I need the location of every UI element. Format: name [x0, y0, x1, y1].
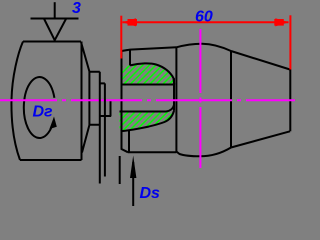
dimension extension line left — [120, 16, 122, 59]
quill steps — [100, 83, 111, 116]
rotation arrowhead — [49, 117, 56, 130]
svg-text:Ds: Ds — [140, 185, 161, 202]
wheel hub cone — [81, 42, 89, 153]
dimension arrow left — [123, 18, 137, 26]
workpiece left face — [122, 51, 129, 152]
dimension line 60 — [123, 21, 289, 23]
body hump top — [176, 44, 231, 51]
workpiece cap top edge — [122, 47, 177, 51]
rotation arrow arc Dg — [24, 77, 55, 138]
body hump bottom — [176, 148, 231, 157]
dimension extension line right — [289, 15, 291, 69]
bore wall upper — [122, 84, 175, 86]
clamp symbol wings — [31, 18, 79, 20]
bore dome curve upper — [130, 63, 174, 84]
cap/body boundary — [175, 47, 177, 151]
centerline horizontal (axis) — [0, 99, 295, 101]
short support line — [119, 156, 121, 184]
bore dome curve lower — [121, 111, 175, 131]
workpiece cap bottom edge — [128, 151, 176, 153]
quill rear vertical below axis — [110, 100, 112, 116]
hatch lower lobe — [120, 111, 175, 132]
svg-text:Dг: Dг — [33, 104, 54, 121]
feed arrow Ds shaft — [132, 162, 134, 206]
svg-text:60: 60 — [195, 9, 213, 26]
feed arrowhead — [130, 156, 136, 179]
taper right face — [289, 70, 291, 132]
bore end wall — [173, 78, 175, 111]
centerline vertical — [199, 29, 201, 168]
spindle column front edge — [99, 72, 101, 184]
counterbore step lower — [128, 131, 130, 153]
svg-text:3: 3 — [72, 0, 81, 17]
taper top edge — [231, 51, 290, 70]
clamp symbol vee — [44, 19, 66, 41]
spindle column rear edge — [104, 83, 106, 176]
body/taper boundary — [230, 51, 232, 148]
dimension arrow right — [275, 18, 289, 26]
counterbore step — [129, 50, 131, 66]
hatch upper lobe — [122, 63, 175, 84]
bore wall lower — [120, 105, 175, 112]
spacer step lines — [89, 72, 99, 125]
grinding wheel body — [11, 42, 81, 161]
clamp symbol stem — [54, 2, 56, 18]
taper bottom edge — [231, 131, 290, 147]
